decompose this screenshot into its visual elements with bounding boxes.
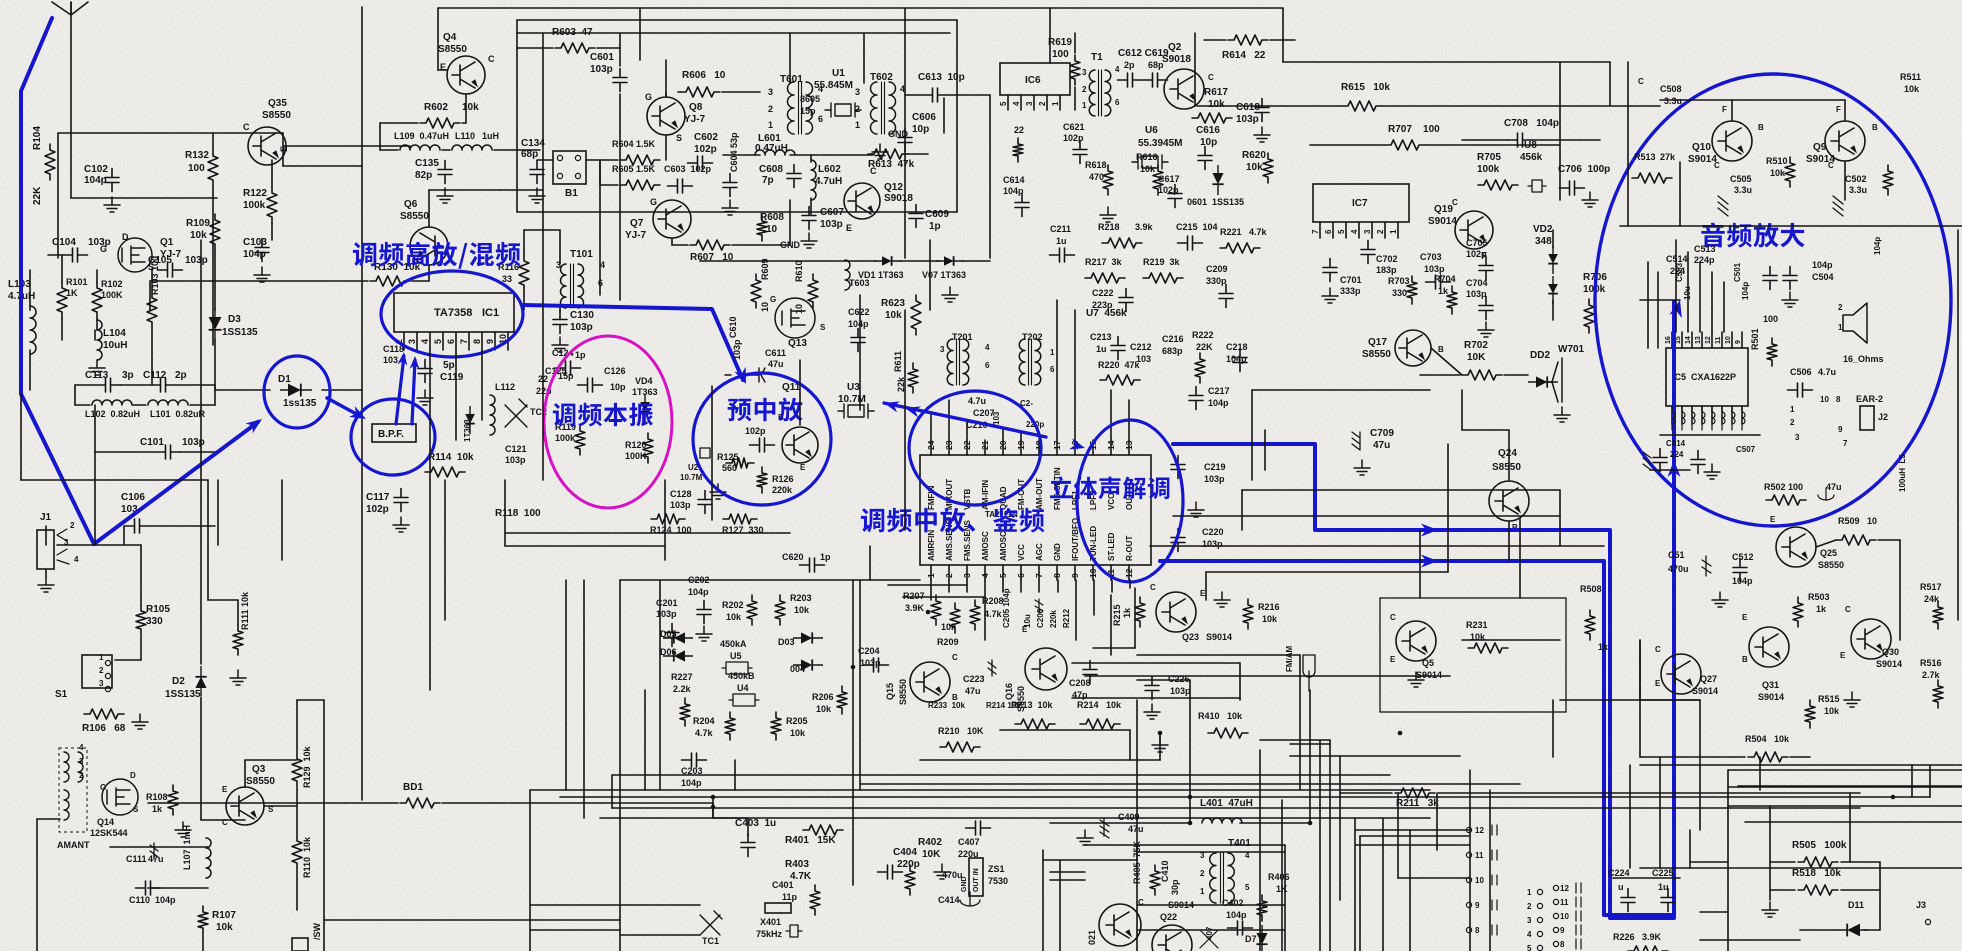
- wire trunk2: [1085, 675, 1450, 677]
- resistor R209: [950, 603, 960, 633]
- svg-text:C604 53p: C604 53p: [729, 132, 739, 172]
- resistor R703: [1407, 276, 1417, 304]
- resistor R607: [690, 240, 730, 250]
- resistor R215: [1135, 597, 1145, 627]
- resistor R616: [1153, 165, 1163, 195]
- svg-text:3: 3: [99, 679, 104, 688]
- svg-text:5p: 5p: [443, 360, 455, 371]
- resistor R204: [725, 712, 735, 740]
- svg-text:22: 22: [962, 440, 972, 450]
- resistor R114: [425, 467, 465, 477]
- svg-text:G: G: [650, 197, 657, 207]
- svg-text:R614 22: R614 22: [1222, 50, 1266, 61]
- capacitor C512: [1733, 559, 1747, 582]
- annotation ellipse 调频中放: [909, 391, 1041, 505]
- capacitor C208b: [1035, 599, 1043, 613]
- svg-text:B: B: [1872, 123, 1878, 132]
- pin c10: [1466, 877, 1471, 882]
- svg-text:R202: R202: [722, 600, 744, 610]
- svg-text:9: 9: [1735, 340, 1742, 344]
- svg-text:5: 5: [1337, 229, 1346, 234]
- wire vertical: [323, 700, 325, 951]
- wire: [215, 389, 270, 391]
- wire trunk: [904, 8, 906, 258]
- svg-text:10K: 10K: [1467, 352, 1486, 363]
- wire trunk2: [1745, 821, 1962, 823]
- svg-text:4: 4: [420, 339, 430, 344]
- svg-text:9: 9: [1560, 926, 1565, 935]
- svg-text:10k: 10k: [790, 728, 806, 738]
- wire: [1732, 99, 1845, 101]
- ground: [801, 233, 817, 248]
- wire IC5 lower pin coil: [1672, 406, 1675, 430]
- svg-text:R515: R515: [1818, 694, 1840, 704]
- svg-text:GND: GND: [961, 876, 968, 892]
- svg-text:C504: C504: [1812, 272, 1834, 282]
- wire: [45, 526, 47, 545]
- wire trunk2: [888, 584, 967, 586]
- svg-text:C506: C506: [1790, 367, 1812, 377]
- svg-text:B.P.F.: B.P.F.: [378, 429, 404, 440]
- wire: [36, 819, 38, 951]
- svg-text:7: 7: [1034, 573, 1044, 578]
- svg-text:Q35: Q35: [268, 98, 287, 109]
- junction: [1188, 821, 1193, 826]
- wire IC U7 bottom pin: [930, 565, 932, 580]
- wire pin9 IC1: [507, 332, 509, 350]
- wire trunk4: [1639, 640, 1641, 700]
- svg-text:C614: C614: [1003, 175, 1025, 185]
- svg-text:2: 2: [768, 104, 773, 114]
- wire trunk: [1049, 8, 1051, 63]
- resistor R213: [1015, 719, 1055, 729]
- wire: [1878, 539, 1900, 541]
- svg-text:VSTB: VSTB: [963, 488, 972, 510]
- ground: [942, 287, 958, 302]
- wire trunk: [1419, 530, 1421, 598]
- svg-text:R132: R132: [185, 150, 209, 161]
- wire trunk2: [860, 774, 1390, 776]
- wire trunk2: [1489, 790, 1491, 951]
- svg-text:E: E: [846, 223, 852, 233]
- wire: [1770, 861, 1795, 863]
- svg-text:C126: C126: [604, 366, 626, 376]
- capacitor bar2: [1492, 925, 1497, 935]
- svg-text:5: 5: [1527, 944, 1532, 951]
- crystal X401: [786, 925, 802, 937]
- jack contacts: [57, 529, 69, 564]
- capacitor C217: [1189, 387, 1203, 410]
- svg-text:F: F: [1836, 105, 1841, 114]
- wire trunk2: [517, 211, 957, 213]
- transistor Q6: [410, 227, 448, 265]
- wire: [644, 690, 646, 790]
- svg-text:U4: U4: [737, 683, 749, 693]
- svg-text:R510: R510: [1766, 156, 1788, 166]
- capacitor C507b: [1691, 451, 1705, 474]
- wire: [94, 452, 96, 545]
- svg-text:L112: L112: [495, 382, 515, 392]
- wire trunk: [530, 904, 700, 906]
- svg-text:4.7u: 4.7u: [968, 396, 986, 406]
- capacitor C211: [1050, 248, 1075, 262]
- wire trunk: [664, 480, 666, 560]
- wire: [70, 2, 72, 15]
- svg-text:S9014: S9014: [1876, 659, 1902, 669]
- svg-text:10k: 10k: [216, 922, 233, 933]
- wire: [110, 846, 208, 848]
- svg-text:R406: R406: [1268, 872, 1290, 882]
- resistor R102: [92, 282, 102, 318]
- wire: [1770, 889, 1795, 891]
- svg-text:E: E: [1390, 655, 1396, 664]
- wire: [151, 328, 153, 385]
- wire: [1650, 469, 1690, 471]
- resistor R518: [1798, 885, 1838, 895]
- capacitor C506: [1788, 383, 1813, 397]
- svg-text:J2: J2: [1878, 412, 1888, 422]
- wire: [75, 404, 90, 406]
- wire IC7 pin: [1384, 222, 1386, 238]
- capacitor C607: [802, 207, 816, 230]
- wire IC5 lower pin coil: [1692, 406, 1695, 430]
- svg-text:S8550: S8550: [1492, 462, 1521, 473]
- svg-text:D03: D03: [778, 637, 795, 647]
- diode DD2: [1528, 376, 1558, 387]
- svg-text:IC1: IC1: [482, 307, 499, 319]
- annotation ellipse IC1: [381, 271, 523, 357]
- wire: [1050, 871, 1085, 873]
- annotation arrowhead B mid: [1421, 555, 1438, 568]
- svg-text:R106 68: R106 68: [82, 723, 126, 734]
- svg-text:C106: C106: [121, 492, 145, 503]
- ground: [254, 267, 270, 282]
- wire: [96, 318, 98, 330]
- svg-text:R611: R611: [893, 351, 903, 372]
- svg-text:AMRFIN: AMRFIN: [927, 530, 936, 561]
- svg-text:3: 3: [1363, 229, 1372, 234]
- svg-text:C609: C609: [925, 209, 949, 220]
- svg-text:R108: R108: [146, 792, 168, 802]
- capacitor C224: [1621, 889, 1635, 912]
- resistor R509: [1836, 535, 1876, 545]
- ground: [1077, 830, 1093, 845]
- resistor R205: [771, 712, 781, 740]
- svg-text:27k: 27k: [1660, 152, 1676, 162]
- svg-text:330p: 330p: [1206, 276, 1227, 286]
- capacitor C134: [530, 161, 544, 184]
- svg-text:223p: 223p: [1092, 300, 1113, 310]
- svg-text:1: 1: [99, 653, 104, 662]
- wire IC5 lower pin coil: [1682, 406, 1685, 430]
- svg-text:S9014: S9014: [1688, 154, 1717, 165]
- wire trunk: [1309, 690, 1311, 790]
- annotation path B: [1160, 561, 1671, 915]
- wire: [1137, 851, 1285, 853]
- wire IC U7 bottom pin: [1092, 565, 1094, 580]
- ground: [1712, 592, 1728, 607]
- svg-text:10k: 10k: [885, 310, 902, 321]
- wire trunk: [619, 133, 621, 300]
- capacitor C414: [960, 892, 980, 906]
- svg-text:17: 17: [1052, 440, 1062, 450]
- svg-text:C213: C213: [1090, 332, 1112, 342]
- svg-text:224p: 224p: [1694, 255, 1715, 265]
- wire: [1844, 162, 1846, 200]
- annotation arrowhead into stereo: [1069, 438, 1087, 453]
- wire: [1679, 162, 1681, 226]
- transformer T602: [871, 82, 896, 134]
- svg-text:22: 22: [1014, 125, 1024, 135]
- resistor R105: [136, 605, 146, 635]
- IC IC6: [1000, 63, 1070, 95]
- svg-text:8: 8: [1560, 940, 1565, 949]
- resistor R220: [1100, 375, 1140, 385]
- svg-text:U8: U8: [1524, 140, 1537, 151]
- svg-text:S9018: S9018: [1162, 54, 1191, 65]
- svg-text:DD2: DD2: [1530, 350, 1550, 361]
- svg-text:4.7u: 4.7u: [1818, 367, 1836, 377]
- wire IC5 lower pin coil: [1702, 406, 1705, 430]
- svg-text:47u: 47u: [1128, 824, 1144, 834]
- wire trunk: [1281, 800, 1283, 951]
- ground: [132, 714, 148, 729]
- svg-text:10k: 10k: [726, 612, 742, 622]
- wire IC5 lower pin coil: [1732, 406, 1735, 430]
- svg-text:R518 10k: R518 10k: [1792, 868, 1841, 879]
- resistor R609: [751, 274, 761, 308]
- wire IC U7 top pin: [948, 440, 950, 455]
- svg-text:C: C: [870, 166, 877, 176]
- svg-text:3: 3: [1795, 433, 1800, 442]
- svg-text:MIXOUT: MIXOUT: [945, 479, 954, 510]
- wire trunk2: [1687, 252, 1689, 332]
- svg-text:T1: T1: [1091, 52, 1103, 63]
- wire trunk2: [1657, 272, 1659, 348]
- svg-text:D11: D11: [1848, 900, 1864, 910]
- wire: [237, 600, 239, 625]
- svg-text:R623: R623: [881, 298, 905, 309]
- capacitor C220: [1171, 529, 1185, 552]
- wire bus right: [1283, 61, 1610, 63]
- svg-text:S9014: S9014: [1416, 670, 1442, 680]
- wire: [1769, 862, 1771, 900]
- wire: [322, 389, 362, 391]
- trimmer R407: [1200, 930, 1218, 948]
- svg-text:100uH L5: 100uH L5: [1898, 454, 1907, 492]
- wire: [1552, 230, 1554, 248]
- svg-text:68p: 68p: [521, 149, 538, 160]
- wire IC6 pin: [1059, 95, 1061, 110]
- wire: [180, 451, 215, 453]
- transistor Q35: [248, 127, 286, 165]
- transformer T101: [561, 264, 584, 308]
- wire trunk: [1137, 654, 1300, 656]
- filter B1: [553, 151, 586, 184]
- svg-text:2: 2: [944, 573, 954, 578]
- wire: [948, 400, 950, 440]
- svg-text:B1: B1: [565, 188, 578, 199]
- wire trunk2: [1137, 904, 1285, 906]
- svg-text:3.3u: 3.3u: [1664, 96, 1682, 106]
- svg-text:C: C: [1452, 198, 1458, 207]
- svg-text:R209: R209: [937, 637, 959, 647]
- wire: [611, 775, 613, 808]
- svg-text:C102: C102: [84, 164, 108, 175]
- capacitor C404: [878, 865, 903, 879]
- svg-text:1u: 1u: [1056, 236, 1067, 246]
- svg-text:R217 3k: R217 3k: [1085, 257, 1123, 267]
- svg-text:G: G: [770, 295, 776, 304]
- wire: [74, 385, 76, 405]
- svg-text:L602: L602: [818, 164, 841, 175]
- svg-text:7: 7: [1843, 439, 1848, 448]
- resistor R619: [1070, 55, 1080, 85]
- svg-text:103p: 103p: [88, 237, 111, 248]
- svg-text:U6: U6: [1145, 125, 1158, 136]
- svg-text:1: 1: [1389, 229, 1398, 234]
- box Q5 area: [1380, 598, 1566, 712]
- wire: [612, 774, 860, 776]
- svg-text:AMOSC: AMOSC: [981, 531, 990, 561]
- wire: [619, 94, 621, 133]
- svg-text:20: 20: [998, 440, 1008, 450]
- pin 2: [1537, 903, 1542, 908]
- svg-text:C111: C111: [126, 854, 147, 864]
- diode D1: [280, 384, 312, 397]
- capacitor C613: [923, 88, 948, 102]
- wire trunk2: [504, 480, 506, 546]
- IC IC7: [1313, 184, 1409, 222]
- wire IC5 lower pin coil: [1712, 406, 1715, 430]
- wire IC U7 bottom pin: [1074, 565, 1076, 580]
- svg-text:Q15: Q15: [885, 683, 895, 700]
- svg-text:103p: 103p: [656, 609, 677, 619]
- svg-text:10: 10: [1820, 395, 1829, 404]
- wire: [1436, 793, 1438, 850]
- svg-text:R511: R511: [1900, 72, 1921, 82]
- capacitor C616: [1198, 147, 1212, 170]
- svg-text:C216: C216: [1162, 334, 1184, 344]
- wire: [962, 260, 990, 262]
- svg-text:R402: R402: [918, 837, 942, 848]
- svg-text:R118 100: R118 100: [495, 508, 541, 519]
- svg-text:456k: 456k: [1520, 152, 1543, 163]
- resistor R109: [210, 214, 220, 250]
- svg-text:R509 10: R509 10: [1838, 516, 1877, 526]
- svg-text:C704: C704: [1466, 278, 1488, 288]
- inductor L102: [92, 400, 132, 405]
- transistor Q9: [1825, 121, 1865, 161]
- svg-text:1ss135: 1ss135: [283, 398, 317, 409]
- transistor Q13: [775, 298, 815, 338]
- svg-text:R222: R222: [1192, 330, 1214, 340]
- svg-text:11p: 11p: [782, 892, 798, 902]
- svg-text:220k: 220k: [772, 485, 793, 495]
- capacitor C126: [578, 378, 603, 392]
- svg-text:T101: T101: [570, 249, 593, 260]
- ground: [437, 188, 453, 203]
- wire pin3 IC1: [429, 332, 431, 350]
- pin: [557, 173, 562, 178]
- svg-text:T201: T201: [952, 332, 973, 342]
- svg-text:R210 10K: R210 10K: [938, 726, 984, 736]
- ground: [934, 864, 950, 879]
- svg-text:103p: 103p: [185, 255, 208, 266]
- transistor Q4: [447, 56, 485, 94]
- wire bus: [600, 817, 1430, 819]
- wire: [379, 123, 381, 150]
- wire trunk2: [852, 580, 854, 885]
- svg-text:VCC: VCC: [1017, 544, 1026, 561]
- svg-text:0.47uH: 0.47uH: [755, 143, 788, 154]
- svg-text:R104: R104: [32, 126, 43, 150]
- svg-text:450kB: 450kB: [728, 671, 755, 681]
- svg-text:C: C: [1714, 161, 1720, 170]
- resistor R510: [1785, 157, 1795, 187]
- svg-text:C103: C103: [243, 237, 267, 248]
- resistor R602: [420, 118, 460, 128]
- ground: [1704, 464, 1720, 479]
- svg-text:2: 2: [1838, 303, 1843, 312]
- svg-text:14: 14: [1106, 440, 1116, 450]
- svg-text:C128: C128: [670, 489, 692, 499]
- capacitor C102: [105, 169, 119, 192]
- wire top bus: [438, 7, 1283, 9]
- resistor R208: [970, 600, 980, 630]
- annotation arrow D1 to BPF: [327, 398, 360, 416]
- svg-text:S9014: S9014: [1206, 632, 1232, 642]
- svg-text:R705: R705: [1477, 152, 1501, 163]
- wire: [1425, 144, 1560, 146]
- svg-text:VCO: VCO: [1107, 493, 1116, 510]
- wire IC7 pin: [1358, 222, 1360, 238]
- wire trunk: [529, 790, 531, 951]
- wire: [948, 94, 990, 96]
- wire: [599, 160, 601, 185]
- wire trunk2: [984, 580, 986, 640]
- capacitor bar: [1576, 883, 1581, 893]
- svg-text:2: 2: [1038, 101, 1047, 106]
- wire: [517, 47, 553, 49]
- wire trunk2: [1136, 845, 1138, 951]
- svg-text:102p: 102p: [694, 144, 717, 155]
- wire: [1074, 33, 1076, 53]
- resistor R101: [57, 282, 67, 318]
- svg-text:104p: 104p: [681, 778, 702, 788]
- wire: [442, 802, 600, 804]
- ground: [710, 484, 726, 499]
- svg-text:S9018: S9018: [884, 193, 913, 204]
- wire trunk2: [1759, 757, 1761, 790]
- svg-text:102p: 102p: [745, 426, 766, 436]
- wire: [200, 697, 202, 820]
- svg-text:104p: 104p: [848, 319, 869, 329]
- capacitor C202: [697, 601, 711, 624]
- svg-text:103: 103: [383, 355, 398, 365]
- wire: [1205, 572, 1207, 600]
- annotation 音频放大: [1701, 223, 1804, 248]
- svg-text:E: E: [1655, 679, 1661, 688]
- svg-text:13: 13: [1124, 440, 1134, 450]
- wire trunk: [1699, 700, 1701, 790]
- wire: [57, 133, 59, 258]
- svg-text:R503: R503: [1808, 592, 1830, 602]
- wire: [1660, 434, 1760, 436]
- annotation arrowhead to BPF: [349, 406, 369, 424]
- capacitor C604: [723, 174, 737, 197]
- svg-text:R204: R204: [693, 716, 715, 726]
